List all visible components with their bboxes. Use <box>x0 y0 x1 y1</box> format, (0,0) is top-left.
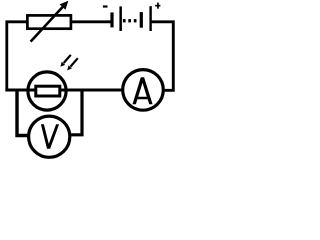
label plus <box>155 5 160 7</box>
rheostat arrow shaft <box>31 7 63 42</box>
ammeter circle <box>123 70 164 111</box>
light arrow 1 head <box>60 62 65 67</box>
resistor R1 (rheostat body) <box>27 15 71 28</box>
label minus <box>103 5 108 7</box>
photoresistor circle <box>28 72 66 110</box>
voltmeter branch left wire <box>17 89 30 136</box>
battery dots <box>123 19 126 22</box>
battery cell 2 positive plate <box>149 6 151 31</box>
wire: battery to right vertical down to ammeter <box>152 22 174 91</box>
wire: rheostat to battery <box>72 20 112 23</box>
photoresistor body (rect inside circle) <box>36 86 60 96</box>
battery cell 2 negative plate <box>140 12 143 28</box>
voltmeter branch right wire <box>69 89 82 135</box>
voltmeter circle <box>29 116 70 157</box>
ammeter label A <box>133 77 153 104</box>
voltmeter label V <box>41 124 59 149</box>
light arrow 2 head <box>67 65 72 70</box>
wire: left loop (top-left corner, left vertical, to mid wire) <box>7 22 27 90</box>
battery cell 1 positive plate <box>119 6 122 31</box>
light arrow 2 shaft <box>70 58 77 66</box>
wire: main middle horizontal through LDR to ammeter <box>5 89 121 92</box>
light arrow 1 shaft <box>64 55 71 63</box>
rheostat arrow head <box>60 1 69 10</box>
battery cell 1 negative plate <box>110 12 113 27</box>
